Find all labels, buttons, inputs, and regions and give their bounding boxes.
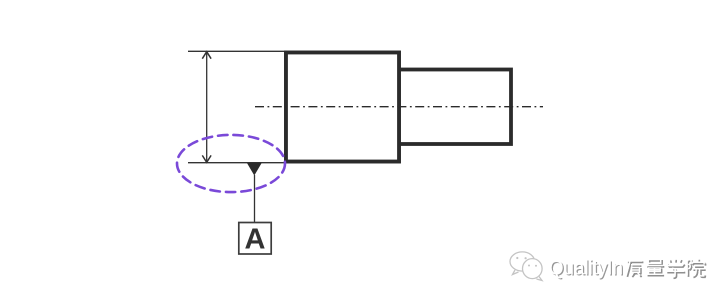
- dimension line with arrows: [202, 52, 211, 163]
- small rectangle (small shaft section): [399, 70, 511, 145]
- wire leader line: [254, 175, 256, 223]
- centerline (dash-dot axis): [255, 106, 543, 108]
- wire bottom datum surface line: [188, 162, 286, 164]
- svg-text:QualityIn: QualityIn: [549, 257, 623, 280]
- datum triangle: [247, 163, 262, 176]
- big rectangle (large shaft section): [286, 53, 399, 162]
- watermark text QualityIn (embossed): [549, 257, 624, 281]
- svg-text:A: A: [245, 224, 266, 256]
- big rectangle redraw to cover joint: [286, 53, 399, 162]
- datum box A: [239, 223, 271, 255]
- wire top extension line: [188, 50, 287, 52]
- watermark logo icon (two chat bubbles): [510, 252, 542, 281]
- purple dashed ellipse highlight: [177, 135, 285, 192]
